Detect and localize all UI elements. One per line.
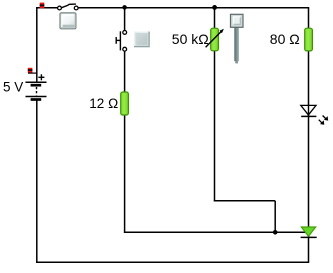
wire bottom horizontal	[36, 261, 309, 263]
svg-text:50 kΩ: 50 kΩ	[172, 31, 209, 47]
battery plate short thick bottom	[31, 98, 42, 101]
switch SW1 (open)	[58, 4, 79, 10]
indicator red marker on top wire	[40, 3, 45, 9]
LED D1 emission arrows	[323, 116, 327, 120]
node junction dot C (bottom)	[273, 230, 278, 235]
wire left vertical battery top lead	[36, 7, 38, 82]
battery B1	[26, 68, 47, 100]
node junction dot B (top pot branch)	[212, 5, 217, 10]
battery red marker	[28, 68, 33, 73]
wire left vertical battery bottom lead	[36, 101, 38, 264]
node junction dot A (top left branch)	[122, 5, 127, 10]
wire middle branch upper (junction to push switch)	[124, 7, 126, 30]
resistor R3 80 ohm	[305, 28, 313, 51]
wire top from switch SW1 right contact to top-right corner	[78, 7, 309, 9]
button for switch SW1	[60, 13, 76, 29]
wire middle branch lower (push switch to corner)	[124, 51, 126, 233]
wire right vertical branch	[308, 8, 310, 262]
wire top from battery corner to switch SW1 left contact	[36, 7, 58, 9]
slider control for potentiometer	[231, 14, 244, 63]
svg-text:80 Ω: 80 Ω	[270, 31, 300, 47]
battery plate short thick top	[31, 84, 42, 87]
wire middle horizontal to LED D2	[124, 231, 305, 233]
wire potentiometer jog vertical	[274, 201, 276, 233]
potentiometer R2 50 kohm	[206, 28, 224, 51]
button for switch SW2	[134, 32, 150, 48]
push switch SW2	[116, 31, 126, 52]
battery dashed cell link	[36, 87, 38, 95]
battery plus sign	[38, 76, 44, 78]
resistor R1 12 ohm	[121, 92, 129, 115]
battery plate long bottom	[26, 96, 47, 98]
wire potentiometer jog horizontal	[214, 200, 275, 202]
svg-text:12 Ω: 12 Ω	[89, 96, 118, 111]
wire potentiometer branch vertical	[214, 7, 216, 201]
LED D2 (lit, green)	[301, 227, 317, 237]
battery plate long top	[26, 81, 47, 83]
svg-text:5 V: 5 V	[3, 80, 23, 95]
LED D1 (off)	[301, 105, 328, 124]
